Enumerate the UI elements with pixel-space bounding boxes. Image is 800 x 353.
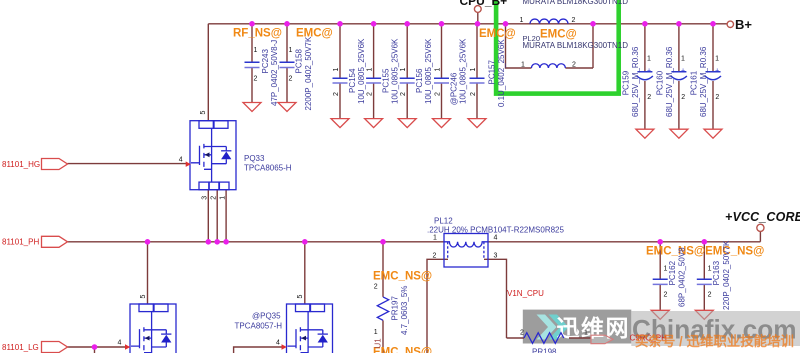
svg-text:2: 2 — [647, 94, 651, 101]
svg-text:220P_0402_50V7K: 220P_0402_50V7K — [722, 240, 731, 310]
svg-text:1: 1 — [289, 47, 293, 54]
svg-text:2: 2 — [400, 92, 407, 96]
svg-text:EMC_NS@EMC_NS@: EMC_NS@EMC_NS@ — [646, 246, 764, 258]
svg-text:.22UH 20% PCMB104T-R22MS0R825: .22UH 20% PCMB104T-R22MS0R825 — [427, 225, 565, 234]
svg-text:2: 2 — [572, 17, 576, 24]
svg-text:5: 5 — [200, 111, 207, 115]
svg-text:+: + — [715, 68, 719, 75]
svg-text:2: 2 — [708, 292, 712, 299]
svg-text:2200P_0402_50V7K: 2200P_0402_50V7K — [304, 36, 313, 111]
svg-text:PC155: PC155 — [382, 68, 391, 93]
svg-text:10U_0805_25V6K: 10U_0805_25V6K — [391, 38, 400, 104]
svg-text:1: 1 — [433, 235, 437, 242]
svg-text:68U_25V_M_R0.36: 68U_25V_M_R0.36 — [699, 46, 708, 117]
svg-text:68P_0402_50V8: 68P_0402_50V8 — [678, 247, 687, 307]
svg-text:1: 1 — [333, 68, 340, 72]
svg-text:买条号 / 迅维职业技能培训: 买条号 / 迅维职业技能培训 — [635, 333, 794, 349]
svg-text:TPCA8057-H: TPCA8057-H — [235, 321, 283, 330]
svg-text:1: 1 — [220, 196, 227, 200]
svg-text:1: 1 — [400, 68, 407, 72]
svg-text:1: 1 — [647, 56, 651, 63]
svg-text:4: 4 — [179, 156, 183, 163]
svg-text:1: 1 — [374, 329, 378, 336]
svg-text:PL12: PL12 — [434, 216, 453, 225]
svg-text:0.1U_0402_25V6K: 0.1U_0402_25V6K — [497, 39, 506, 107]
svg-text:+: + — [681, 68, 685, 75]
svg-text:1: 1 — [681, 56, 685, 63]
svg-text:10U_0805_25V6K: 10U_0805_25V6K — [459, 38, 468, 104]
svg-text:MURATA BLM18KG300TN1D: MURATA BLM18KG300TN1D — [523, 41, 629, 50]
svg-text:2: 2 — [664, 292, 668, 299]
svg-text:4: 4 — [494, 235, 498, 242]
svg-text:PC158: PC158 — [295, 48, 304, 73]
svg-text:47P_0402_50V8-J: 47P_0402_50V8-J — [270, 40, 279, 106]
svg-text:2: 2 — [470, 92, 477, 96]
svg-text:1: 1 — [470, 68, 477, 72]
svg-text:5: 5 — [297, 295, 304, 299]
svg-text:EMC_NS@: EMC_NS@ — [373, 271, 432, 283]
svg-text:EMC@: EMC@ — [296, 28, 333, 40]
svg-text:81101_HG: 81101_HG — [2, 160, 40, 169]
svg-text:2: 2 — [333, 92, 340, 96]
svg-text:PC163: PC163 — [712, 260, 721, 285]
svg-text:1: 1 — [708, 266, 712, 273]
svg-text:2: 2 — [433, 253, 437, 260]
svg-text:2: 2 — [366, 92, 373, 96]
svg-text:2: 2 — [681, 94, 685, 101]
svg-text:PC161: PC161 — [690, 70, 699, 95]
svg-text:PQ33: PQ33 — [244, 154, 265, 163]
svg-text:PC162: PC162 — [668, 260, 677, 285]
svg-text:1: 1 — [435, 68, 442, 72]
svg-text:2: 2 — [715, 94, 719, 101]
svg-text:MURATA BLM18KG300TN1D: MURATA BLM18KG300TN1D — [523, 0, 629, 6]
svg-text:PR197: PR197 — [391, 295, 400, 320]
svg-text:4: 4 — [118, 340, 122, 347]
svg-text:1: 1 — [367, 68, 374, 72]
svg-text:1: 1 — [521, 61, 525, 68]
svg-text:+: + — [647, 68, 651, 75]
svg-text:4.7_0603_5%: 4.7_0603_5% — [400, 286, 409, 335]
svg-text:3: 3 — [494, 253, 498, 260]
svg-text:81101_LG: 81101_LG — [2, 343, 39, 352]
svg-text:@PC246: @PC246 — [450, 72, 459, 105]
svg-text:@PQ35: @PQ35 — [252, 312, 281, 321]
svg-text:V1N_CPU: V1N_CPU — [507, 289, 544, 298]
svg-text:1: 1 — [664, 266, 668, 273]
svg-text:1: 1 — [584, 330, 588, 337]
svg-text:81101_PH: 81101_PH — [2, 237, 39, 246]
svg-text:RF_NS@: RF_NS@ — [233, 28, 282, 40]
svg-text:2: 2 — [520, 330, 524, 337]
svg-text:1: 1 — [254, 47, 258, 54]
svg-text:10U_0805_25V6K: 10U_0805_25V6K — [424, 38, 433, 104]
svg-text:TPCA8065-H: TPCA8065-H — [244, 163, 292, 172]
svg-text:PC243: PC243 — [261, 48, 270, 73]
svg-text:PC154: PC154 — [348, 68, 357, 93]
svg-text:4: 4 — [276, 340, 280, 347]
svg-text:PC160: PC160 — [655, 70, 664, 95]
svg-text:+VCC_CORE: +VCC_CORE — [725, 210, 800, 224]
svg-text:2: 2 — [254, 76, 258, 83]
svg-text:PC157: PC157 — [488, 59, 497, 84]
svg-text:CPU_B+: CPU_B+ — [460, 0, 508, 8]
svg-text:2: 2 — [211, 196, 218, 200]
svg-text:1: 1 — [715, 56, 719, 63]
svg-text:2: 2 — [374, 283, 378, 290]
svg-text:B+: B+ — [735, 17, 752, 32]
svg-text:2: 2 — [289, 76, 293, 83]
svg-text:3: 3 — [202, 196, 209, 200]
svg-text:2: 2 — [434, 92, 441, 96]
svg-text:EMC@: EMC@ — [540, 29, 577, 41]
svg-text:1: 1 — [520, 17, 524, 24]
svg-text:PC159: PC159 — [622, 70, 631, 95]
svg-text:2: 2 — [572, 61, 576, 68]
svg-text:U1: U1 — [374, 338, 383, 349]
svg-text:PR198: PR198 — [532, 348, 557, 353]
svg-text:PC156: PC156 — [415, 68, 424, 93]
svg-text:68U_25V_M_R0.36: 68U_25V_M_R0.36 — [665, 46, 674, 117]
svg-text:10U_0805_25V6K: 10U_0805_25V6K — [357, 38, 366, 104]
svg-text:5: 5 — [140, 295, 147, 299]
svg-text:EMC@: EMC@ — [479, 28, 516, 40]
svg-text:68U_25V_M_R0.36: 68U_25V_M_R0.36 — [631, 46, 640, 117]
